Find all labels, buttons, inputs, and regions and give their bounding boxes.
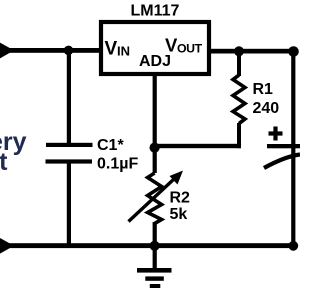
wire: R1 upper lead bbox=[237, 51, 241, 76]
polarity label + bbox=[269, 131, 283, 135]
svg-text:V: V bbox=[105, 39, 118, 60]
node: VOUT / R1 junction bbox=[234, 46, 244, 56]
svg-text:Input: Input bbox=[0, 148, 8, 176]
wire: C1 lower lead bbox=[67, 163, 71, 246]
wire: ground stub bbox=[153, 246, 157, 269]
input terminal arrow (top left) bbox=[0, 43, 14, 59]
regulator U1 LM117 bbox=[101, 22, 209, 74]
wire: R1 to ADJ horizontal bbox=[154, 144, 241, 148]
ground bbox=[137, 268, 172, 273]
wire: bottom return line bbox=[0, 243, 294, 248]
node: VIN / C1 junction bbox=[64, 46, 74, 56]
wire: input line top (battery + to VIN) bbox=[0, 48, 100, 53]
resistor R2 (variable) bbox=[148, 173, 162, 224]
svg-text:0.1µF: 0.1µF bbox=[97, 156, 138, 173]
node: ADJ / R1 / R2 junction bbox=[150, 143, 160, 153]
wire: C1 upper lead bbox=[67, 50, 71, 143]
wire: R2 lower lead bbox=[153, 222, 157, 246]
svg-text:240: 240 bbox=[253, 100, 280, 117]
wiper arrow of R2 bbox=[129, 179, 175, 222]
wire: ADJ pin lead bbox=[153, 74, 157, 146]
wire: output capacitor upper lead bbox=[291, 51, 295, 158]
svg-text:IN: IN bbox=[117, 44, 130, 59]
resistor R1 bbox=[233, 75, 245, 124]
svg-text:R2: R2 bbox=[170, 190, 191, 207]
svg-text:R1: R1 bbox=[253, 81, 274, 98]
node: output / capacitor junction (top right) bbox=[288, 46, 299, 57]
wire: VOUT output line top bbox=[210, 49, 296, 54]
wire: output capacitor lower lead bbox=[291, 158, 295, 246]
capacitor C1 bbox=[46, 143, 93, 147]
svg-text:C1*: C1* bbox=[97, 137, 124, 154]
svg-text:OUT: OUT bbox=[177, 42, 203, 56]
capacitor C2 (output, polarized) bbox=[267, 144, 300, 148]
node: R2 / ground junction bbox=[150, 241, 160, 251]
wire: R2 upper lead bbox=[153, 146, 157, 173]
wire: R1 lower lead bbox=[237, 123, 241, 148]
svg-text:LM117: LM117 bbox=[131, 2, 180, 19]
svg-text:ADJ: ADJ bbox=[139, 53, 171, 70]
input terminal arrow (bottom left) bbox=[0, 238, 14, 254]
node: output capacitor bottom junction bbox=[288, 241, 298, 251]
svg-text:5k: 5k bbox=[170, 206, 188, 223]
